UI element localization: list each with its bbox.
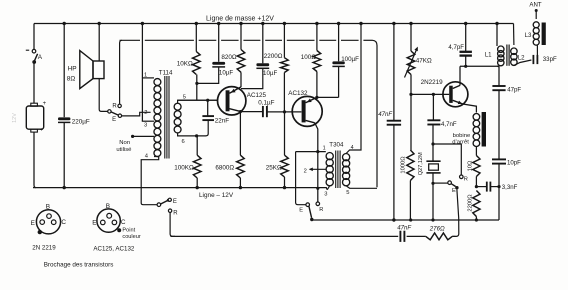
transistor 2N2219 [443,82,468,107]
svg-text:B: B [46,204,50,211]
resistor 10K bus drop [195,22,198,52]
svg-text:C: C [61,219,66,226]
wire collector to 0.1uF [240,111,262,113]
svg-text:+: + [40,128,43,134]
label 0.1uF [258,99,274,106]
resistor 820ohm [237,50,245,73]
capacitor 10pF [492,159,506,163]
wire battery branch top [33,24,35,50]
wire 6800 bottom [239,178,242,189]
svg-text:4,7pF: 4,7pF [448,44,464,51]
T304 pin 4 wire [346,22,363,154]
transistor AC125 [218,87,246,115]
capacitor 47pF [492,86,505,90]
resistor 6800ohm [237,155,245,178]
resistor 100ohm [313,51,321,72]
wire 1000 bottom to bus [409,181,412,222]
potentiometer 47K bus drop [409,22,412,51]
label Ligne -12V [199,192,234,199]
transformer T304 label [323,141,354,151]
capacitor 100uF bus drop [337,22,340,62]
wire L2 bottom to 33pF [514,60,532,65]
svg-text:E: E [31,220,35,227]
svg-text:100µF: 100µF [341,56,359,63]
svg-text:820Ω: 820Ω [221,54,237,61]
inductor L3 core [542,23,546,46]
label R bottom switch [319,207,323,213]
svg-text:47nF: 47nF [397,224,412,231]
wire speaker branch top [98,22,101,61]
wire 25K bottom [283,177,286,189]
wire 820 to AC125 emitter [240,72,242,87]
svg-text:E: E [299,208,303,214]
svg-text:AC132: AC132 [288,90,308,97]
capacitor 0.1uF [263,106,267,117]
svg-text:R: R [173,210,178,216]
svg-text:10µF: 10µF [263,70,277,77]
resistor 820 bus drop [239,22,242,50]
label 2N2219 schematic [421,79,444,86]
wire L2 top riser [513,24,515,46]
capacitor 4.7nF drop [432,94,434,120]
label 820ohm [221,54,237,61]
svg-text:10pF: 10pF [507,160,521,167]
wire 47nF mid to bottom bus [392,125,395,222]
resistor 100 bus drop [315,22,318,51]
label 10uF second [263,70,277,77]
capacitor 47nF (middle) [387,121,401,125]
label 4.7pF [448,44,464,51]
svg-text:3,3nF: 3,3nF [502,184,518,191]
wire 100uF down to emitter wire [338,66,340,97]
label quartz rotated [418,152,424,175]
pinout 2N2219 circle [36,210,60,235]
svg-text:4,7nF: 4,7nF [441,121,457,128]
capacitor 4.7pF bus drop [464,22,467,52]
transformer T114 secondary winding [174,103,181,133]
label brochage [44,262,114,269]
resistor 25K drop [284,112,286,155]
label 6800ohm [215,165,234,172]
svg-text:ANT: ANT [529,2,541,9]
svg-text:Point: Point [122,228,135,234]
label 10Kohm [177,60,193,67]
svg-text:Ligne de masse +12V: Ligne de masse +12V [206,16,274,23]
wire top +12V bus (ligne de masse) [34,23,514,25]
label L2 [518,54,525,61]
wire L1 bottom to 47pF [498,66,500,86]
label 47nF bottom [397,224,412,231]
inductor L2 [511,48,517,65]
wire 47pF down to 10pF [498,90,500,159]
label 4.7nF [441,121,457,128]
capacitor 10uF (second) [256,63,269,68]
resistor 2200ohm upper [281,58,289,73]
svg-text:3: 3 [324,191,327,197]
capacitor 4.7pF [460,52,472,56]
svg-text:Ligne – 12V: Ligne – 12V [199,192,234,199]
svg-text:Q27,12M: Q27,12M [418,152,424,175]
resistor 10ohm [473,156,480,177]
wire 2N2219 collector up [459,66,461,85]
svg-text:Brochage des transistors: Brochage des transistors [44,262,114,269]
T304 pin 5 wire [346,186,377,196]
svg-text:+: + [43,101,47,107]
svg-text:B: B [106,203,110,210]
wire R contact down to y236 link [170,213,175,237]
label 25Kohm [266,165,282,172]
switch E/R right (emission/reception) [431,175,463,189]
wire 1000 top [410,94,412,150]
capacitor 100uF [332,61,344,66]
label 3.3nF [502,184,518,191]
wire AC125 collector node [239,110,242,155]
svg-text:E: E [173,199,177,205]
T304 pin 2 tap [304,168,327,175]
label A [38,54,43,61]
wire speaker to switch pivot [99,79,107,112]
label Ligne de masse +12V [206,16,274,23]
capacitor 22nF [202,116,214,120]
wire pin1 to E contact riser [296,152,306,205]
svg-text:AC125: AC125 [247,92,267,99]
wire bottom link y236 [171,235,456,237]
label 47Kohm [416,57,432,64]
svg-text:100KΩ: 100KΩ [174,165,194,172]
capacitor 10uF first bus drop [217,22,220,62]
label AC125 [247,92,267,99]
svg-text:47KΩ: 47KΩ [416,57,432,64]
wire -12V line (ligne -12V) [33,188,327,190]
transformer T304 core [336,151,340,189]
label HP 8ohm [67,65,77,82]
resistor 1000ohm [407,150,414,181]
crystal Q 27.12MHz [426,144,440,183]
wire collector node y66 [460,65,499,68]
wire 220uF branch top [62,22,65,117]
svg-text:L1: L1 [485,51,492,58]
wire 4.7pF to collector node [465,56,467,67]
label 47nF middle [378,111,393,118]
svg-text:2: 2 [304,168,307,174]
label 33pF [543,56,557,63]
switch Re/E (speaker changeover) [108,104,122,117]
wire 220uF to -12V line [62,123,65,190]
wire 0.1uF to AC132 base [267,110,302,113]
label 220uF [72,119,90,126]
svg-text:276Ω: 276Ω [429,225,445,232]
svg-text:bobine: bobine [453,133,471,139]
svg-text:33pF: 33pF [543,56,557,63]
potentiometer 47Kohm [405,47,418,78]
T114 tap non utilise [131,135,154,138]
label 100Kohm [174,165,194,172]
wire 10ohm to node [475,177,478,189]
T304 pin1 wire [296,151,326,153]
svg-text:6: 6 [182,139,185,145]
wire 2N2219 emitter to choke [463,104,477,113]
capacitor 10uF second bus drop [261,22,264,64]
resistor 25Kohm [281,155,289,177]
transformer T304 secondary winding [343,154,350,186]
svg-text:1000Ω: 1000Ω [400,156,406,174]
svg-text:A: A [38,54,43,61]
pinout AC labels [92,203,141,252]
inductor L3 [533,22,539,45]
transformer T304 primary winding [326,153,333,186]
svg-text:HP: HP [68,65,77,72]
switch A [26,49,38,63]
label 2200ohm upper [264,53,283,60]
wire battery to -12V line [34,132,36,187]
svg-text:22nF: 22nF [215,117,230,124]
wire bottom bus y220 [312,219,499,221]
svg-text:2N2219: 2N2219 [421,79,444,86]
wire crystal node to bottom bus [431,183,434,221]
resistor 2200 top bus drop [283,22,286,58]
label 100uF [341,56,359,63]
svg-text:2: 2 [144,110,147,116]
T114 pin 5 [178,95,218,104]
label 10uF first [219,70,233,77]
transformer L1L2 core [507,45,509,66]
battery B1 [26,101,46,133]
capacitor 33pF [533,55,537,64]
svg-text:C: C [121,219,126,226]
svg-text:L3: L3 [525,32,532,39]
transformer T114 core [165,76,169,159]
label 10ohm rotated [468,160,474,171]
svg-text:12V: 12V [12,113,18,123]
label bobine d'arret [452,133,471,146]
wire 2200 lower to bus [475,217,478,222]
svg-text:10µF: 10µF [219,70,233,77]
capacitor 47nF bottom [400,231,404,242]
capacitor 3.3nF [487,182,491,192]
inductor L1 [498,46,504,66]
label 10pF [507,160,521,167]
svg-text:6800Ω: 6800Ω [215,165,234,172]
antenna terminal [529,2,541,19]
wire 100ohm down to emitter wire [315,72,318,100]
label R right switch [464,176,468,182]
wire 100K bottom [196,178,199,189]
resistor 2200ohm lower [473,191,480,217]
label E right switch [452,188,456,194]
T114 pin 6 [178,133,197,145]
label 276ohm [429,225,445,232]
wire L1 bottom link [497,65,499,68]
T114 pin 3 [142,121,154,128]
wire receive line y40 from Re contact across to T304 area [120,40,378,187]
label R left switch [173,210,178,216]
T114 pin 2 label [144,110,147,116]
label Non utilise [116,140,132,153]
label E bottom switch [299,208,303,214]
svg-text:8Ω: 8Ω [67,76,76,83]
svg-text:5: 5 [346,190,349,196]
capacitor 4.7nF [427,120,440,124]
svg-text:47nF: 47nF [378,111,393,118]
svg-text:utilisé: utilisé [116,147,132,153]
svg-text:L2: L2 [518,54,525,61]
label battery faint [12,113,18,123]
svg-text:1: 1 [323,146,326,152]
svg-text:2200Ω: 2200Ω [468,194,474,212]
capacitor 22nF drop [207,100,209,116]
wire crystal node to R contact [433,144,461,175]
svg-text:Non: Non [119,140,130,146]
wire L1 top riser [495,22,498,46]
svg-text:100Ω: 100Ω [301,54,317,61]
transformer T114 primary winding [154,79,161,157]
wire E contact to T114 pin2 [122,112,151,116]
transistor AC132 [292,96,322,126]
svg-text:T304: T304 [329,141,344,148]
capacitor 47nF mid drop from bus [392,22,395,121]
label L1 [485,51,492,58]
wire choke to 10ohm [475,147,477,156]
wire AC132 collector drop [315,123,320,202]
T114 pin 1 [142,73,154,79]
pinout 2N2219 labels [31,204,67,252]
svg-text:0,1µF: 0,1µF [258,99,274,106]
svg-text:10Ω: 10Ω [468,160,474,171]
label R speaker switch [112,104,117,110]
label 22nF [215,117,230,124]
wire 2200 down to AC132 base node [283,73,285,112]
label 2200ohm lower rotated [468,194,474,212]
wire 10pF down to bottom bus [497,164,500,220]
inductor choke (bobine d'arret) [473,112,486,147]
svg-text:T114: T114 [159,70,173,77]
svg-text:2N 2219: 2N 2219 [32,244,56,251]
capacitor 220uF [58,117,70,122]
wire 47K to 2N2219 base [409,75,412,97]
wire AC132 emitter wire [316,96,338,98]
svg-text:E: E [452,188,456,194]
label AC132 [288,90,308,97]
pinout AC125/AC132 circle [97,209,121,232]
resistor 100Kohm [193,155,201,178]
wire 10uF2 bottom to emitter node [241,68,263,88]
wire 22nF bottom to pin6 node [195,120,208,137]
svg-text:E: E [112,117,116,123]
wire bus drop x142 to T114 [141,22,144,121]
resistor 10Kohm [193,52,201,75]
svg-text:4: 4 [145,154,149,160]
capacitor 3.3nF wire [476,186,499,188]
switch E/R below T114 [157,198,172,212]
wire AC125 base wire [178,99,218,102]
svg-text:couleur: couleur [122,234,140,240]
svg-text:1: 1 [144,73,147,79]
wire E contact down to y236 corner [452,189,459,236]
wire 33pF up to L3 [536,46,538,56]
wire 10uF1 bottom to 10K node [197,67,219,84]
label 47pF [507,86,521,93]
svg-text:220µF: 220µF [72,119,90,126]
svg-text:47pF: 47pF [507,86,521,93]
resistor 276ohm [426,233,452,240]
svg-text:R: R [112,104,117,110]
wire Re contact riser [120,40,122,104]
svg-text:2200Ω: 2200Ω [264,53,283,60]
svg-text:AC125, AC132: AC125, AC132 [93,245,134,252]
wire 2N2219 base wire [411,93,449,96]
label 100ohm [301,54,317,61]
label 1000ohm rotated [400,156,406,174]
T114 pin 4 [141,154,159,205]
speaker HP 8ohm [80,51,104,89]
label L3 [525,32,532,39]
svg-text:R: R [464,176,468,182]
wire 10K bottom to base node [195,75,198,101]
resistor 100K drop [196,136,198,155]
wire 4.7nF to crystal node [431,125,434,146]
T304 pin 3 [324,186,330,198]
transformer T114 label [159,70,173,77]
svg-text:25KΩ: 25KΩ [266,165,282,172]
svg-text:E: E [92,220,96,227]
switch E/R bottom middle [306,202,320,221]
label E speaker switch [112,117,116,123]
wire switch A to battery [33,64,35,104]
svg-text:3: 3 [144,123,147,129]
svg-text:10KΩ: 10KΩ [177,60,193,67]
svg-text:R: R [319,207,323,213]
capacitor 10uF (first) [212,62,225,67]
label E left switch [173,199,177,205]
